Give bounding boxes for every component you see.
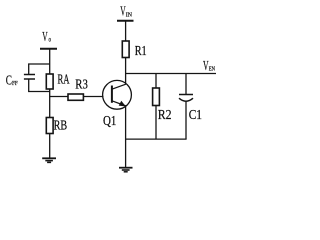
svg-text:IN: IN <box>126 11 133 18</box>
wire CFF top branch <box>29 64 50 74</box>
wire R1 to collector node <box>125 58 127 85</box>
wire R2 branch top <box>155 74 157 89</box>
transistor Q1 <box>103 80 132 109</box>
resistor RB <box>46 118 53 134</box>
resistor R1 <box>122 41 129 58</box>
svg-text:V: V <box>203 59 209 74</box>
ground right <box>119 168 133 172</box>
svg-text:C1: C1 <box>189 108 202 123</box>
node VEN label <box>203 59 215 74</box>
svg-text:EN: EN <box>209 66 216 73</box>
svg-text:Q1: Q1 <box>103 114 116 129</box>
wire C1 branch top <box>185 74 187 95</box>
svg-text:RA: RA <box>58 72 71 87</box>
resistor RA <box>46 74 53 89</box>
wire C1 branch bottom <box>185 101 187 139</box>
power flag VIN bar <box>117 20 134 22</box>
wire bottom rail <box>126 138 187 140</box>
node VIN label <box>120 5 132 20</box>
wire base from divider <box>50 96 104 98</box>
resistor R2 <box>153 88 160 106</box>
capacitor CFF <box>24 75 35 80</box>
svg-text:R3: R3 <box>75 77 88 92</box>
svg-text:V: V <box>42 30 47 45</box>
ground left <box>42 158 56 162</box>
node Vo label <box>42 30 51 45</box>
capacitor C1 <box>179 95 193 102</box>
svg-text:o: o <box>49 35 52 43</box>
wire VIN to R1 <box>125 21 127 42</box>
svg-text:R2: R2 <box>158 108 172 123</box>
svg-text:R1: R1 <box>135 44 147 59</box>
power flag Vo bar <box>40 48 57 50</box>
svg-text:FF: FF <box>12 80 18 87</box>
wire R2 branch bottom <box>155 106 157 140</box>
wire VEN rail <box>125 73 216 75</box>
wire emitter down <box>125 106 127 168</box>
wire Vo to RA <box>49 49 51 75</box>
resistor R3 <box>68 94 83 100</box>
svg-text:RB: RB <box>54 119 68 134</box>
label CFF <box>6 74 18 89</box>
wire RA to RB <box>49 89 51 118</box>
wire RB to ground <box>49 134 51 159</box>
wire CFF bottom branch <box>29 79 50 92</box>
